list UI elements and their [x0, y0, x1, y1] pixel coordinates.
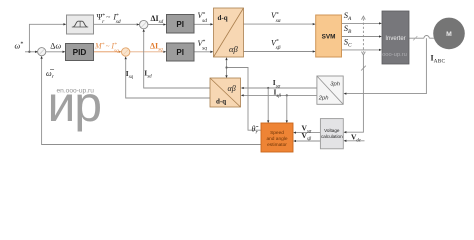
wire flux block to summing junction 2 [94, 23, 137, 25]
alphabeta to dq transform block [210, 78, 241, 107]
arrow into PID [63, 51, 66, 53]
svg-text:SVM: SVM [322, 34, 336, 41]
arrow into ab-dq right lower [241, 94, 244, 96]
svg-text:V*sq: V*sq [198, 39, 208, 52]
gate signal bundle dashed tap line [362, 19, 364, 53]
junction dot speed ref branch [28, 51, 30, 53]
svg-text:Δω: Δω [50, 41, 61, 50]
arrow into voltage calculation right upper [344, 131, 347, 133]
summing junction 2 isd error [140, 20, 148, 28]
node circle on motor feed [424, 36, 429, 39]
wire SA SVM to inverter [342, 22, 380, 24]
wire summing junction 2 to PI1 [148, 24, 164, 26]
svg-text:2ph: 2ph [318, 96, 329, 102]
PID controller block [66, 44, 94, 61]
svg-text:Ψ*r~I*sd: Ψ*r~I*sd [97, 13, 121, 26]
wire Vsbeta voltage calc to estimator [296, 140, 321, 142]
svg-text:calculation: calculation [321, 134, 343, 139]
arrow into PI2 [163, 51, 166, 53]
wire isbeta 3ph-2ph to ab-dq block [244, 94, 317, 96]
svg-text:Voltage: Voltage [324, 128, 340, 133]
arrow into SVM lower [313, 50, 316, 52]
wire Vsb dq-ab to SVM [244, 51, 313, 53]
SVM block [316, 15, 342, 57]
arrow omega estimate into summing junction 1 [40, 56, 42, 59]
svg-text:d-q: d-q [218, 14, 228, 22]
svg-text:SC: SC [344, 36, 352, 48]
svg-text:V*sd: V*sd [198, 11, 208, 24]
arrow into dq-ab block lower [210, 51, 213, 53]
arrow into flux block [63, 23, 66, 25]
svg-text:ΔIsd: ΔIsd [151, 14, 164, 25]
svg-text:ир: ир [48, 76, 101, 132]
wire isq feedback [126, 60, 210, 99]
arrow into SVM upper [313, 23, 316, 25]
motor M [433, 18, 465, 50]
svg-text:Speed: Speed [270, 130, 284, 136]
svg-text:estimator: estimator [267, 142, 287, 148]
svg-text:PI: PI [176, 20, 184, 29]
arrow isq into summing junction 3 [125, 56, 127, 59]
svg-text:and angle: and angle [266, 136, 287, 142]
wire isalpha tap to estimator [267, 88, 269, 121]
wire IABC measurement tap [346, 38, 426, 93]
svg-text:αβ: αβ [228, 84, 236, 93]
svg-text:ΔIsq: ΔIsq [150, 42, 163, 53]
svg-text:3ph: 3ph [330, 82, 340, 88]
wire summing junction 1 to PID [46, 51, 63, 53]
arrow into dq-ab block upper [210, 23, 213, 25]
slash mark on motor feed [413, 36, 417, 40]
arrow theta into ab-dq top [225, 75, 227, 78]
flux reference block [67, 15, 94, 34]
svg-text:SB: SB [344, 23, 352, 35]
wire PI1 to dq-ab block [194, 23, 211, 25]
wire SB SVM to inverter [342, 36, 380, 38]
wire Vsa dq-ab to SVM [244, 23, 313, 25]
wire SC SVM to inverter [342, 49, 380, 51]
svg-text:IABC: IABC [431, 54, 446, 65]
svg-text:M: M [446, 31, 452, 38]
svg-text:Isd: Isd [144, 68, 152, 79]
svg-text:PI: PI [176, 48, 184, 57]
svg-text:PID: PID [73, 48, 87, 57]
PI controller block 1 [167, 15, 195, 34]
arrow theta into dq-ab bottom [225, 57, 227, 60]
wire isalpha 3ph-2ph to ab-dq block [244, 87, 317, 89]
3ph-2ph transform block [317, 76, 343, 104]
PI controller block 2 [167, 43, 195, 61]
wire PI2 to dq-ab block [194, 51, 211, 53]
inverter block [382, 11, 409, 64]
junction dot theta split [225, 66, 227, 68]
arrow into summing junction 2 [137, 23, 140, 25]
summing junction 3 isq error (orange) [122, 48, 130, 56]
svg-text:ω*: ω* [15, 41, 24, 50]
svg-text:SA: SA [344, 10, 352, 22]
svg-text:ooo-up.ru: ooo-up.ru [382, 52, 407, 58]
wire Vdc input stub [346, 140, 364, 142]
svg-text:V*sβ: V*sβ [271, 38, 281, 51]
wire isbeta tap to estimator [286, 95, 288, 120]
wire omega estimate feedback [42, 59, 261, 145]
junction dot isalpha tap [267, 87, 269, 89]
svg-text:Vdc: Vdc [351, 133, 362, 144]
speed and angle estimator block [261, 123, 293, 152]
voltage calculation block [320, 119, 343, 149]
svg-text:Isq: Isq [126, 69, 134, 80]
summing junction 1 speed error [38, 48, 46, 56]
wire omega* input [25, 51, 37, 53]
wire inverter to motor [409, 37, 434, 39]
svg-text:Inverter: Inverter [385, 36, 405, 42]
arrow into summing junction 3 [119, 51, 122, 53]
svg-text:αβ: αβ [229, 44, 238, 54]
wire PID to summing junction 3 (orange torque path) [94, 51, 119, 53]
wire speed ref branch to flux block [29, 24, 63, 52]
junction dot isbeta tap [286, 94, 288, 96]
wire summing junction 3 to PI2 (orange) [130, 51, 164, 53]
dq to alphabeta transform block [214, 8, 244, 57]
svg-text:d-q: d-q [216, 97, 226, 105]
wire gate bundle down to voltage calculation [346, 55, 363, 132]
wire Vsalpha voltage calc to estimator [296, 132, 321, 134]
wire isd feedback [144, 32, 210, 88]
wire theta estimate to transform blocks [227, 60, 262, 130]
arrow isd into summing junction 2 [143, 29, 145, 32]
arrow into 3ph-2ph block [344, 92, 347, 94]
arrow into summing junction 1 [35, 51, 38, 53]
arrow into PI1 [163, 23, 166, 25]
arrow into ab-dq right upper [241, 87, 244, 89]
svg-text:V*sα: V*sα [271, 11, 281, 24]
slash mark on gate bundle [361, 66, 366, 71]
